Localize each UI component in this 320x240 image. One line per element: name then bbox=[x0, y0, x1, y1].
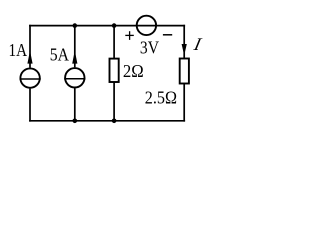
current source I1 arrow bbox=[27, 51, 32, 64]
wire 5A branch upper bbox=[74, 25, 76, 68]
svg-text:2Ω: 2Ω bbox=[123, 61, 144, 81]
wire right branch lower bbox=[183, 84, 185, 122]
wire top bbox=[29, 25, 185, 27]
plus sign bbox=[125, 31, 134, 40]
svg-text:1A: 1A bbox=[9, 40, 28, 60]
wire bottom bbox=[29, 120, 185, 122]
current arrow I bbox=[182, 44, 187, 55]
svg-text:3V: 3V bbox=[140, 37, 159, 57]
junction dot top R1 bbox=[112, 23, 117, 28]
current source I2 arrow bbox=[72, 51, 77, 64]
resistor R2 2.5ohm bbox=[180, 59, 189, 84]
resistor R1 2ohm bbox=[110, 59, 119, 82]
voltage source V1 3V bbox=[137, 16, 156, 35]
junction dot top 5A bbox=[73, 23, 78, 28]
svg-text:2.5Ω: 2.5Ω bbox=[145, 87, 177, 107]
wire R1 branch upper bbox=[113, 25, 115, 58]
wire R1 branch lower bbox=[113, 82, 115, 121]
wire left branch upper bbox=[29, 25, 31, 68]
junction dot bottom 5A bbox=[73, 119, 78, 124]
minus sign bbox=[163, 34, 172, 36]
svg-text:5A: 5A bbox=[50, 45, 69, 65]
wire left branch lower bbox=[29, 89, 31, 122]
current source I2 5A bbox=[64, 68, 85, 87]
svg-text:I: I bbox=[191, 34, 203, 54]
junction dot bottom R1 bbox=[112, 119, 117, 124]
wire 5A branch lower bbox=[74, 88, 76, 121]
current source I1 1A bbox=[20, 68, 41, 87]
wire right branch upper bbox=[183, 25, 185, 58]
